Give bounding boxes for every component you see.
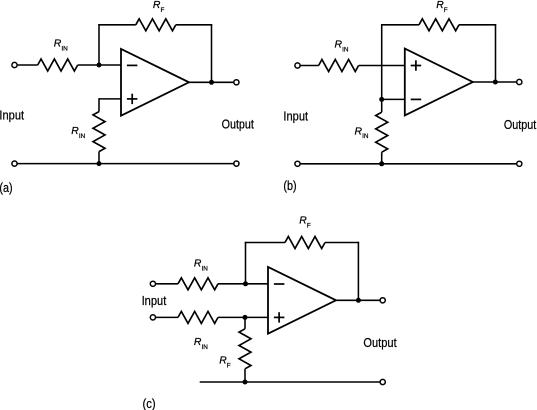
op-amp plus input symbol <box>127 98 137 100</box>
wire plus input (a) <box>99 98 121 100</box>
wire ground rail (a) <box>17 163 233 165</box>
wire feedback down to output (c) <box>357 242 359 300</box>
resistor R_IN horizontal (b) <box>319 60 359 72</box>
svg-text:IN: IN <box>202 266 209 273</box>
wire plus to R_IN vertical (a) <box>98 98 100 111</box>
node ground junction (a) <box>97 161 102 166</box>
resistor R_IN horizontal (a) <box>38 59 78 71</box>
svg-text:F: F <box>307 222 311 229</box>
resistor R_F (c) <box>285 237 325 249</box>
op-amp plus input symbol <box>411 65 422 67</box>
node minus junction (b) <box>379 97 384 102</box>
input terminal circuit a <box>12 62 17 67</box>
node ground junction (b) <box>379 161 384 166</box>
output terminal circuit a <box>234 80 239 85</box>
resistor R_IN upper (c) <box>178 278 218 290</box>
ground rail right terminal (b) <box>517 161 522 166</box>
wire feedback down to output (a) <box>211 24 213 82</box>
resistor R_IN lower (c) <box>178 311 218 323</box>
svg-text:IN: IN <box>342 46 349 53</box>
wire input to R_IN (b) <box>300 65 318 67</box>
svg-text:Input: Input <box>0 108 24 123</box>
wire output (a) <box>189 81 234 83</box>
op-amp U1 (a) <box>121 49 189 116</box>
svg-text:Input: Input <box>283 109 308 124</box>
node minus-input junction (a) <box>97 63 102 68</box>
ground rail left terminal (a) <box>12 161 17 166</box>
upper input terminal circuit c <box>150 281 155 286</box>
wire R_IN vertical to ground rail (b) <box>381 152 383 164</box>
resistor R_IN vertical (a) <box>93 112 105 152</box>
resistor R_F (b) <box>419 19 459 31</box>
svg-text:F: F <box>227 363 231 370</box>
output terminal circuit c <box>380 298 385 303</box>
wire feedback vertical (b) <box>381 24 383 112</box>
op-amp minus input symbol <box>411 98 422 100</box>
svg-text:Output: Output <box>504 117 537 132</box>
op-amp U2 (b) <box>405 49 473 116</box>
wire ground rail (b) <box>300 163 516 165</box>
node output junction (a) <box>209 80 214 85</box>
wire R_IN to op-amp plus (c) <box>218 316 268 318</box>
wire output (b) <box>473 81 517 83</box>
svg-text:(a): (a) <box>0 180 13 195</box>
resistor R_IN vertical (b) <box>376 112 388 152</box>
node minus junction (c) <box>243 281 248 286</box>
wire ground rail (c) <box>200 381 380 383</box>
wire input to R_IN (a) <box>17 64 37 66</box>
wire minus input (b) <box>382 98 405 100</box>
svg-text:IN: IN <box>202 344 209 351</box>
resistor R_F (a) <box>136 19 176 31</box>
wire top right (a) <box>176 24 212 26</box>
node output junction (c) <box>356 298 361 303</box>
svg-text:F: F <box>444 7 448 14</box>
op-amp minus input symbol <box>127 64 137 66</box>
ground rail right terminal (a) <box>234 161 239 166</box>
svg-text:IN: IN <box>61 46 68 53</box>
wire top left (c) <box>245 242 285 244</box>
wire output (c) <box>336 299 380 301</box>
svg-text:F: F <box>161 7 165 14</box>
wire plus junction to R_F vertical (c) <box>244 318 246 329</box>
node ground junction (c) <box>243 380 248 385</box>
wire R_F vertical to ground rail (c) <box>244 369 246 382</box>
lower input terminal circuit c <box>150 315 155 320</box>
op-amp minus input symbol <box>274 283 285 285</box>
wire top right (c) <box>325 242 359 244</box>
wire lower input to R_IN (c) <box>156 316 178 318</box>
wire top left (b) <box>381 24 419 26</box>
svg-text:Output: Output <box>363 335 397 350</box>
wire feedback up (a) <box>98 24 100 66</box>
input terminal circuit b <box>295 63 300 68</box>
resistor R_F vertical (c) <box>239 329 251 369</box>
ground rail terminal (c) <box>380 379 385 384</box>
ground rail left terminal (b) <box>295 161 300 166</box>
wire upper input to R_IN (c) <box>156 283 178 285</box>
svg-text:Input: Input <box>142 293 167 308</box>
wire R_IN vertical to ground rail (a) <box>98 152 100 164</box>
node output junction (b) <box>493 80 498 85</box>
wire feedback up-left (c) <box>245 242 247 284</box>
wire top right (b) <box>459 24 496 26</box>
svg-text:IN: IN <box>79 133 86 140</box>
svg-text:(b): (b) <box>283 178 296 193</box>
op-amp U3 (c) <box>268 267 336 334</box>
wire R_IN to op-amp minus (a) <box>78 64 121 66</box>
op-amp plus input symbol <box>274 316 285 318</box>
wire top left (a) <box>98 24 136 26</box>
node plus junction (c) <box>243 315 248 320</box>
svg-text:IN: IN <box>362 133 369 140</box>
wire feedback down to output (b) <box>495 24 497 82</box>
wire R_IN to op-amp plus (b) <box>359 65 405 67</box>
wire R_IN to op-amp minus (c) <box>218 283 268 285</box>
svg-text:Output: Output <box>222 116 255 131</box>
output terminal circuit b <box>517 79 522 84</box>
svg-text:(c): (c) <box>143 396 156 410</box>
